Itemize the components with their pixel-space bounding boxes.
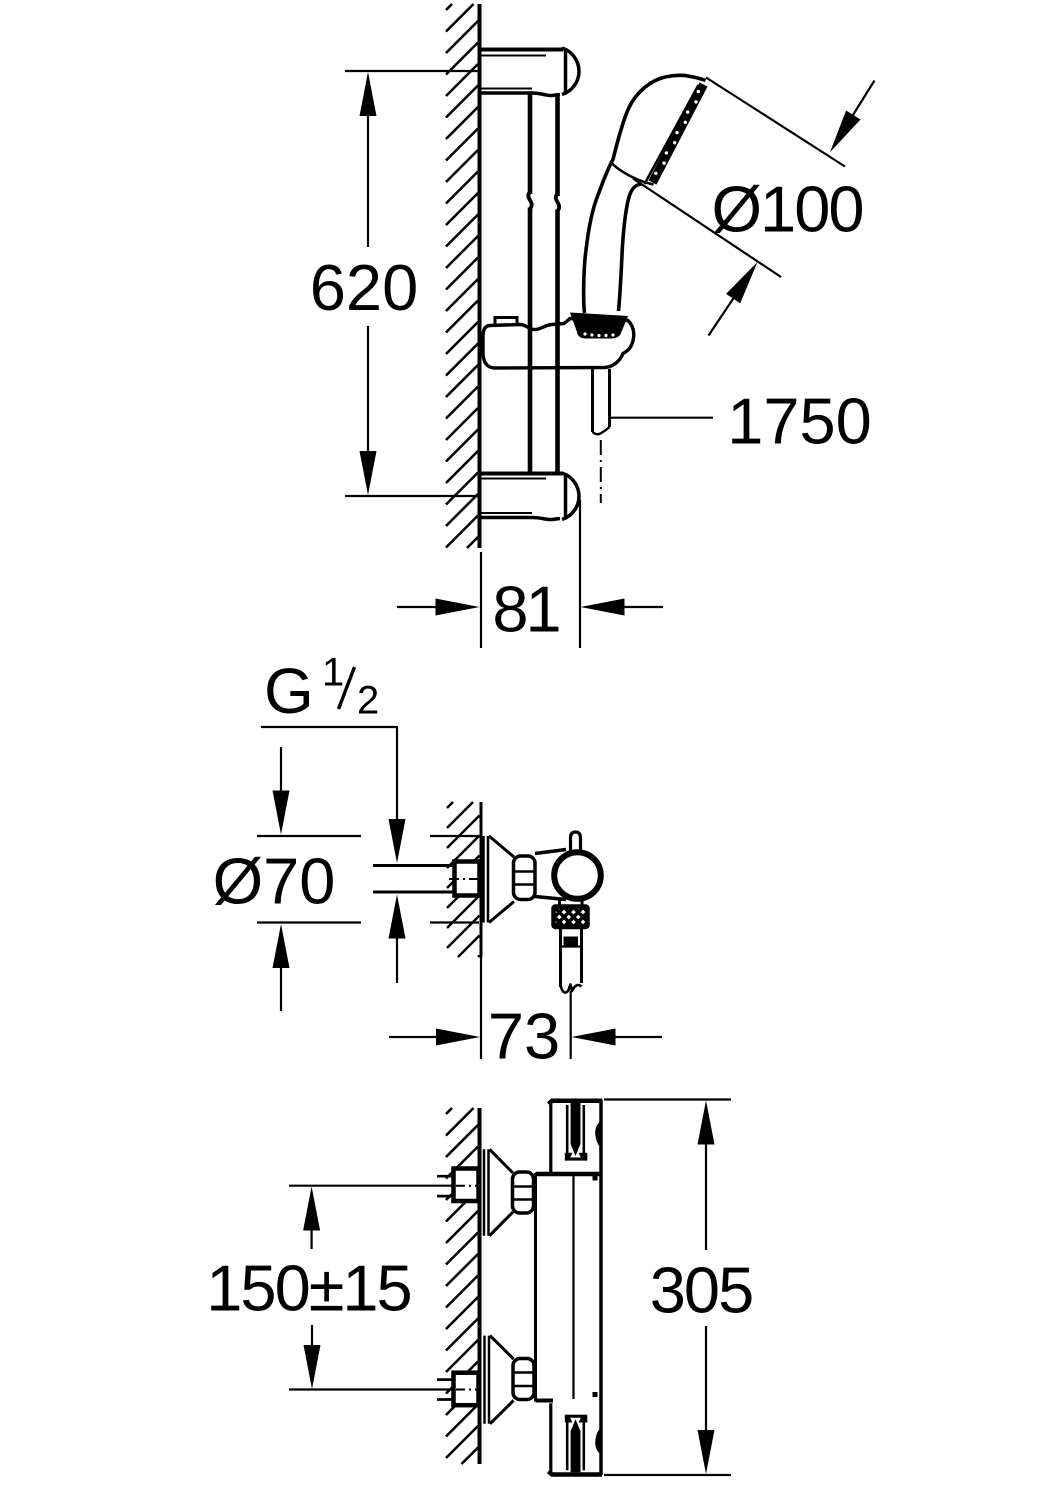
dimension 150 arrow up bbox=[303, 1187, 320, 1231]
dimension 73 arrow right bbox=[613, 1036, 662, 1038]
hand shower face inner line bbox=[645, 85, 699, 184]
G 1/2 leader line bbox=[261, 727, 397, 822]
upper wall union square nut (bottom figure) bbox=[454, 1169, 479, 1202]
dimension 73 arrow left bbox=[389, 1036, 439, 1038]
svg-text:305: 305 bbox=[650, 1254, 752, 1327]
hand shower handle bbox=[584, 160, 613, 314]
dimension 305 extension line bottom bbox=[604, 1474, 731, 1476]
hose coupling knurled nut bbox=[554, 907, 588, 928]
dimension diameter-100 arrow lower bbox=[709, 296, 736, 336]
shower rail top bracket bbox=[481, 48, 563, 52]
svg-text:620: 620 bbox=[310, 251, 418, 324]
shower hose outlet bbox=[591, 369, 594, 432]
dimension 620 arrow down bbox=[360, 451, 377, 495]
shower hose (middle) bbox=[559, 927, 562, 987]
svg-text:1: 1 bbox=[322, 651, 344, 695]
hand shower head bottom rim bbox=[611, 163, 654, 185]
svg-text:Ø100: Ø100 bbox=[711, 173, 862, 246]
wall (middle figure) bbox=[480, 802, 483, 957]
valve body (middle) bbox=[535, 850, 566, 854]
wall (bottom figure) bbox=[478, 1108, 482, 1464]
dimension 81 arrow left bbox=[397, 606, 438, 608]
hex nut (middle) bbox=[514, 856, 536, 900]
dimension 305 arrow down bbox=[698, 1430, 715, 1474]
dimension 620 extension line top bbox=[345, 70, 478, 72]
svg-text:73: 73 bbox=[488, 1000, 560, 1073]
dimension 150 extension line upper bbox=[289, 1185, 455, 1187]
escutcheon (middle) bbox=[482, 836, 485, 923]
dimension 81 arrow right bbox=[622, 606, 663, 608]
wall hatching (top figure) bbox=[446, 4, 478, 548]
wall (top figure) bbox=[478, 4, 482, 548]
hand shower spray face (dotted band) bbox=[653, 85, 704, 183]
thermostat body bbox=[534, 1173, 537, 1402]
wall union square nut (middle) bbox=[455, 862, 480, 896]
rail break symbol bbox=[528, 192, 531, 209]
wall hatching (middle figure) bbox=[447, 802, 480, 957]
svg-text:150±15: 150±15 bbox=[206, 1252, 410, 1325]
glide holder body bbox=[483, 319, 634, 369]
dimension diameter-100 extension line lower bbox=[633, 179, 781, 278]
wall hatching (bottom figure) bbox=[446, 1108, 478, 1464]
hand shower hose nut (black) bbox=[570, 313, 628, 339]
outlet neck bbox=[558, 900, 561, 909]
hose centerline (dash-dot) bbox=[600, 440, 602, 503]
dimension 150 extension line lower bbox=[289, 1388, 455, 1390]
supply pipe G 1/2 (middle) bbox=[373, 864, 454, 867]
control knob circle bbox=[554, 852, 601, 899]
dimension diameter-100 extension line upper bbox=[706, 78, 845, 167]
dimension 620 arrow up bbox=[360, 72, 377, 116]
thermostat top handle bbox=[549, 1101, 603, 1172]
dimension 81 extension line left bbox=[480, 552, 482, 648]
dimension 305 extension line top bbox=[604, 1098, 731, 1100]
dimension 150 arrow down bbox=[304, 1345, 321, 1389]
svg-text:1750: 1750 bbox=[727, 385, 872, 458]
dimension diameter-70 extension lines bbox=[257, 835, 361, 837]
thermostat bottom handle bbox=[549, 1403, 603, 1474]
lower inlet pipe stub (bottom figure) bbox=[437, 1378, 454, 1381]
hand shower head outline bbox=[613, 75, 706, 160]
dimension diameter-70 arrow upper bbox=[280, 747, 282, 794]
lower hex nut (bottom figure) bbox=[513, 1359, 534, 1400]
glide holder clamp tab bbox=[495, 318, 517, 327]
lower wall union square nut (bottom figure) bbox=[454, 1373, 479, 1406]
hose break (middle) bbox=[561, 985, 582, 993]
svg-text:2: 2 bbox=[357, 679, 379, 723]
dimension diameter-100 arrow upper bbox=[833, 81, 875, 148]
shower rail bar bbox=[528, 95, 533, 195]
upper inlet pipe stub (bottom figure) bbox=[437, 1175, 454, 1178]
lower escutcheon (bottom figure) bbox=[483, 1336, 486, 1424]
dimension 81 extension line right bbox=[579, 500, 581, 648]
dimension 620 extension line bottom bbox=[345, 495, 478, 497]
pipe centerline dash-dot (middle) bbox=[449, 878, 478, 880]
shower rail bottom bracket bbox=[481, 472, 563, 476]
dimension 305 arrow up bbox=[698, 1101, 715, 1145]
upper escutcheon (bottom figure) bbox=[483, 1149, 486, 1235]
dimension diameter-70 arrow lower bbox=[273, 924, 290, 968]
leader line 1750 bbox=[611, 417, 714, 419]
svg-text:Ø70: Ø70 bbox=[213, 845, 336, 918]
svg-text:G: G bbox=[264, 655, 314, 727]
G 1/2 arrow upper bbox=[389, 819, 406, 863]
temperature stub bbox=[571, 832, 581, 852]
G 1/2 arrow lower bbox=[389, 895, 406, 939]
upper hex nut (bottom figure) bbox=[513, 1172, 534, 1213]
svg-text:81: 81 bbox=[492, 573, 558, 646]
hose centerline / 73 extension right bbox=[570, 991, 572, 1059]
